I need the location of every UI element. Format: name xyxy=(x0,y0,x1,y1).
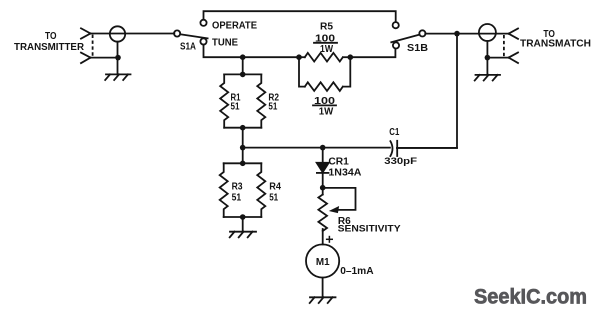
svg-text:OPERATE: OPERATE xyxy=(212,19,257,31)
svg-text:TRANSMITTER: TRANSMITTER xyxy=(14,41,84,53)
svg-text:51: 51 xyxy=(269,192,278,204)
svg-text:1N34A: 1N34A xyxy=(328,166,361,178)
svg-text:51: 51 xyxy=(231,101,240,113)
svg-text:0–1mA: 0–1mA xyxy=(340,265,374,277)
svg-text:1W: 1W xyxy=(320,43,333,55)
svg-text:330pF: 330pF xyxy=(384,156,417,166)
svg-text:51: 51 xyxy=(268,101,277,113)
svg-text:R5: R5 xyxy=(320,21,333,33)
svg-text:C1: C1 xyxy=(389,126,399,138)
svg-text:TUNE: TUNE xyxy=(212,37,238,49)
svg-text:TRANSMATCH: TRANSMATCH xyxy=(520,38,591,50)
svg-text:SeekIC.com: SeekIC.com xyxy=(474,286,587,309)
svg-text:M1: M1 xyxy=(316,256,330,268)
svg-text:1W: 1W xyxy=(319,106,334,118)
svg-text:S1A: S1A xyxy=(180,40,196,52)
svg-text:S1B: S1B xyxy=(407,42,428,54)
svg-text:51: 51 xyxy=(232,192,242,204)
svg-text:SENSITIVITY: SENSITIVITY xyxy=(338,224,401,234)
